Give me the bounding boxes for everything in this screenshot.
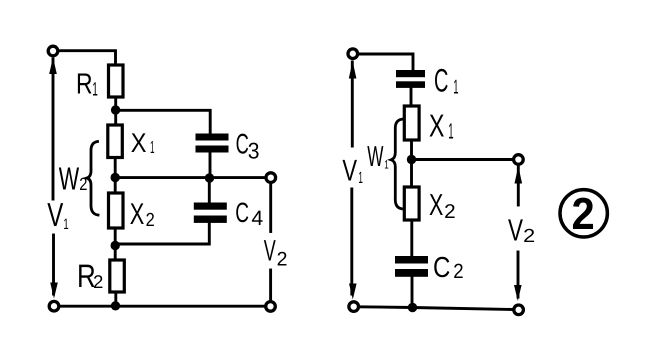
svg-text:W: W <box>367 141 384 173</box>
wire: X2 bottom to C2 <box>410 220 413 256</box>
terminal: right circuit bottom-right <box>514 305 524 315</box>
svg-text:2: 2 <box>93 271 103 292</box>
arrowhead: V1 bottom, pointing down (left circuit) <box>50 283 58 299</box>
wire: middle line to right terminal (right circuit) <box>412 158 514 161</box>
svg-text:C: C <box>235 197 249 228</box>
arrowhead: V1 bottom, pointing down (right circuit) <box>349 284 357 300</box>
capacitor C3 <box>196 134 229 153</box>
node: junction between R1 and X1 <box>111 105 120 114</box>
wire: C1 bottom to X1 top (right circuit) <box>410 88 413 106</box>
wire: V1 measuring line upper segment (left circuit) <box>52 59 55 199</box>
wire: right circuit top wire <box>358 54 414 70</box>
label V1 (left) <box>47 197 68 234</box>
arrowhead: V2 top, pointing up (right circuit) <box>515 166 523 184</box>
resistor R2 <box>110 260 125 292</box>
wire: C4 bottom bends left to ladder node <box>115 223 209 244</box>
node: middle node on ladder <box>111 173 120 182</box>
terminal: left circuit top-left <box>48 46 58 56</box>
svg-text:V: V <box>264 234 276 267</box>
wire: middle horizontal line to V2 terminal <box>115 176 266 179</box>
label R1 <box>76 68 98 100</box>
node: bottom node (right circuit) <box>408 303 417 312</box>
resistor R1 <box>109 65 124 97</box>
terminal: left circuit top-right <box>266 173 276 183</box>
svg-text:X: X <box>429 107 444 143</box>
svg-text:2: 2 <box>79 174 87 194</box>
wire: X1 bottom to X2 top (right circuit) <box>410 140 413 187</box>
svg-text:X: X <box>131 128 147 158</box>
resistor X2 (left circuit) <box>109 193 124 228</box>
capacitor C4 <box>194 203 227 223</box>
figure number: circled 2 <box>560 188 607 239</box>
svg-text:2: 2 <box>453 260 463 283</box>
svg-text:X: X <box>429 189 443 222</box>
terminal: right circuit bottom-left <box>349 302 359 312</box>
terminal: left circuit bottom-left <box>49 301 59 311</box>
node: bottom of ladder <box>111 301 120 310</box>
label W1 <box>367 141 389 173</box>
svg-text:1: 1 <box>384 158 389 172</box>
label W2 <box>59 161 88 197</box>
svg-text:W: W <box>59 161 80 197</box>
brace: W2 curly brace (left circuit) <box>87 142 98 216</box>
capacitor C1 <box>396 70 425 88</box>
wire: X2 bottom to R2 top <box>114 228 117 260</box>
arrowhead: V1 top, pointing up (right circuit) <box>349 61 357 79</box>
svg-text:2: 2 <box>523 226 535 247</box>
svg-text:V: V <box>342 154 357 187</box>
svg-text:V: V <box>508 212 523 247</box>
svg-text:X: X <box>130 198 145 231</box>
wire: branch from node to capacitor C3 <box>116 110 211 133</box>
wire: left circuit bottom wire <box>59 305 267 308</box>
wire: R1 bottom to X1 top <box>114 97 117 125</box>
svg-text:1: 1 <box>358 169 363 187</box>
wire: middle node down to C4 <box>208 178 211 203</box>
svg-text:2: 2 <box>572 188 595 239</box>
label C2 <box>433 252 464 284</box>
label X1 (right) <box>429 107 454 143</box>
wire: right circuit bottom wire <box>358 307 514 310</box>
wire: V1 line upper segment (right circuit) <box>351 62 354 146</box>
label V1 (right) <box>342 154 363 187</box>
label X2 (right) <box>429 189 456 223</box>
svg-text:1: 1 <box>448 118 453 143</box>
svg-text:2: 2 <box>277 248 288 270</box>
capacitor C2 <box>395 256 428 277</box>
arrowhead: V1 top, pointing up (left circuit) <box>49 57 57 74</box>
svg-text:1: 1 <box>453 76 458 98</box>
svg-text:4: 4 <box>251 207 263 230</box>
wire: V1 line lower segment (right circuit) <box>350 189 353 294</box>
label C1 <box>434 62 458 98</box>
svg-text:C: C <box>434 62 448 98</box>
svg-text:3: 3 <box>248 138 260 164</box>
label R2 <box>77 258 103 294</box>
wire: V2 line upper segment (right circuit) <box>517 167 520 205</box>
wire: V2 measuring line lower segment (left circuit) <box>269 270 272 302</box>
label V2 (right) <box>508 212 535 247</box>
wire: R2 bottom to bottom line <box>114 292 117 306</box>
resistor X1 (right circuit) <box>404 106 419 140</box>
node: junction between X2 and R2 <box>111 241 120 250</box>
svg-text:1: 1 <box>63 216 68 233</box>
svg-text:V: V <box>47 197 63 234</box>
wire: V1 measuring line lower segment (left circuit) <box>52 235 55 294</box>
terminal: right circuit top-left <box>348 49 358 59</box>
label C3 <box>236 128 260 163</box>
label X1 (left) <box>131 128 155 158</box>
resistor X2 (right circuit) <box>404 187 419 220</box>
svg-text:1: 1 <box>150 137 155 157</box>
label X2 (left) <box>130 198 155 231</box>
arrowhead: V2 bottom, pointing down (right circuit) <box>514 285 522 301</box>
wire: V2 measuring line upper segment (left circuit) <box>269 182 272 231</box>
node: junction of C3 and C4 on middle line <box>205 173 214 182</box>
wire: C2 bottom to bottom line <box>411 277 414 308</box>
brace: W1 curly brace (right circuit) <box>391 119 402 209</box>
svg-text:R: R <box>76 68 93 100</box>
node: middle node (right circuit) <box>407 155 416 164</box>
resistor X1 (left circuit) <box>108 125 123 158</box>
label C4 <box>235 197 263 230</box>
svg-text:2: 2 <box>444 201 456 223</box>
svg-text:C: C <box>433 252 450 284</box>
terminal: left circuit bottom-right <box>266 302 276 312</box>
wire: V2 line lower segment (right circuit) <box>517 252 520 297</box>
wire: left circuit top wire <box>58 51 116 65</box>
terminal: right circuit top-right <box>514 155 524 165</box>
svg-text:2: 2 <box>146 210 155 231</box>
wire: X1 bottom to X2 top <box>114 158 117 194</box>
label V2 (left) <box>264 234 288 270</box>
svg-text:1: 1 <box>92 78 98 100</box>
wire: C3 bottom to middle line <box>209 153 212 178</box>
